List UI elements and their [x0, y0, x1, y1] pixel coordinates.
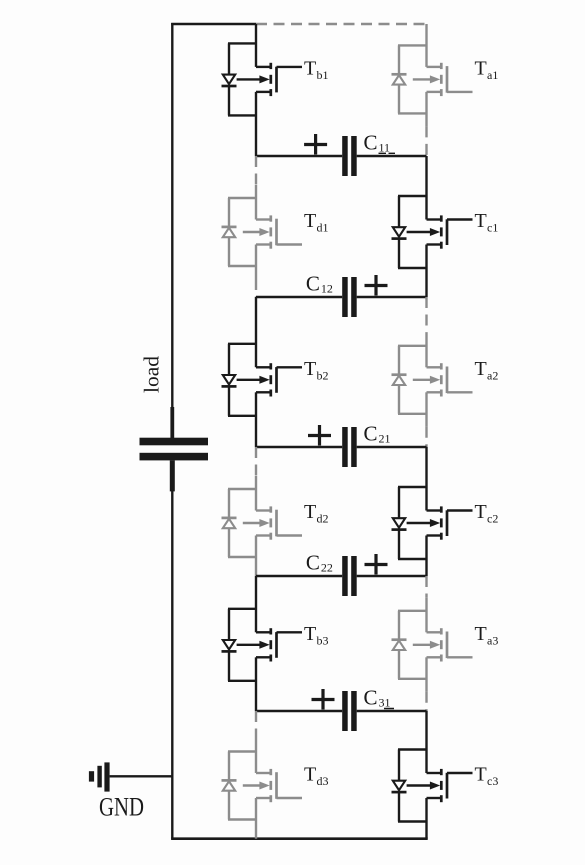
svg-text:T: T	[475, 57, 487, 79]
svg-text:22: 22	[321, 561, 333, 575]
transistor T_d2	[222, 476, 303, 570]
wire C11 left	[256, 155, 342, 157]
svg-text:T: T	[304, 501, 316, 523]
svg-text:c3: c3	[487, 774, 498, 788]
polarity + of C31	[312, 689, 335, 710]
svg-text:d1: d1	[317, 221, 329, 235]
capacitor C22	[342, 556, 357, 596]
wire C21 right	[357, 446, 427, 448]
dashed wire C11-Td1	[255, 156, 257, 185]
transistor T_b1	[222, 24, 303, 156]
wire left rail upper	[171, 23, 173, 407]
wire top rail dashed gray	[256, 23, 427, 25]
svg-text:C: C	[306, 272, 320, 296]
svg-text:T: T	[304, 623, 316, 645]
transistor T_d3	[222, 739, 303, 833]
dashed wire C31-Td3	[255, 711, 257, 739]
wire left rail lower	[171, 491, 173, 839]
wire C12 right	[357, 296, 427, 298]
svg-text:a3: a3	[487, 633, 498, 647]
svg-text:31: 31	[379, 696, 391, 710]
svg-text:21: 21	[379, 432, 391, 446]
svg-text:C: C	[364, 686, 378, 710]
wire ground lead	[110, 775, 173, 777]
svg-text:T: T	[475, 501, 487, 523]
capacitor C21	[342, 427, 357, 467]
capacitor C11	[342, 136, 357, 176]
svg-text:b1: b1	[317, 68, 329, 82]
transistor T_b2	[222, 297, 303, 447]
svg-text:c2: c2	[487, 512, 498, 526]
wire C12 left	[256, 296, 342, 298]
dashed wire C21-Td2	[255, 447, 257, 476]
svg-text:T: T	[304, 358, 316, 380]
capacitor C31	[342, 691, 357, 731]
polarity + of C12	[365, 275, 388, 296]
svg-text:T: T	[475, 358, 487, 380]
svg-text:b3: b3	[317, 633, 329, 647]
transistor T_a3	[392, 598, 473, 692]
polarity + of C21	[308, 425, 331, 446]
polarity + of C22	[365, 554, 388, 575]
svg-text:b2: b2	[317, 368, 329, 382]
wire C22 left	[256, 575, 342, 577]
transistor T_a1	[392, 24, 473, 126]
transistor T_a2	[392, 333, 473, 427]
dashed wire Ta1-C11	[425, 126, 427, 156]
svg-text:a1: a1	[487, 68, 498, 82]
svg-text:T: T	[475, 764, 487, 786]
wire C31 left	[256, 710, 342, 712]
svg-text:T: T	[475, 210, 487, 232]
dashed wire C12-Ta2	[425, 297, 427, 333]
svg-text:C: C	[306, 551, 320, 575]
load capacitor	[140, 438, 209, 461]
dashed wire Td1-C12	[255, 279, 257, 297]
svg-text:c1: c1	[487, 221, 498, 235]
capacitor C12	[342, 277, 357, 317]
transistor T_c2	[392, 447, 473, 576]
svg-text:GND: GND	[99, 793, 144, 822]
svg-text:T: T	[304, 764, 316, 786]
transistor T_b3	[222, 576, 303, 711]
svg-text:d2: d2	[317, 512, 329, 526]
svg-text:a2: a2	[487, 368, 498, 382]
svg-text:T: T	[304, 210, 316, 232]
wire load cap top lead thick	[170, 407, 174, 438]
svg-text:11: 11	[379, 141, 391, 155]
svg-text:load: load	[140, 356, 164, 393]
wire C11 right	[357, 155, 427, 157]
dashed wire Ta2-C21	[425, 427, 427, 447]
dashed wire Td2-C22	[255, 570, 257, 576]
svg-text:T: T	[475, 623, 487, 645]
svg-text:T: T	[304, 57, 316, 79]
ground symbol	[89, 762, 110, 791]
wire load cap bottom lead thick	[170, 460, 175, 491]
transistor T_c3	[392, 711, 473, 839]
dashed wire Td3-bottom rail	[255, 833, 257, 839]
svg-text:C: C	[364, 422, 378, 446]
wire C22 right	[357, 575, 427, 577]
wire top rail black	[171, 23, 256, 25]
wire C21 left	[256, 446, 342, 448]
wire C31 right	[357, 710, 427, 712]
svg-text:C: C	[364, 131, 378, 155]
svg-text:d3: d3	[317, 774, 329, 788]
transistor T_c1	[392, 156, 473, 297]
polarity + of C11	[304, 134, 327, 155]
dashed wire C22-Ta3	[425, 576, 427, 598]
wire bottom rail	[171, 837, 428, 840]
transistor T_d1	[222, 185, 303, 279]
dashed wire Ta3-C31	[425, 692, 427, 711]
svg-text:12: 12	[321, 282, 333, 296]
